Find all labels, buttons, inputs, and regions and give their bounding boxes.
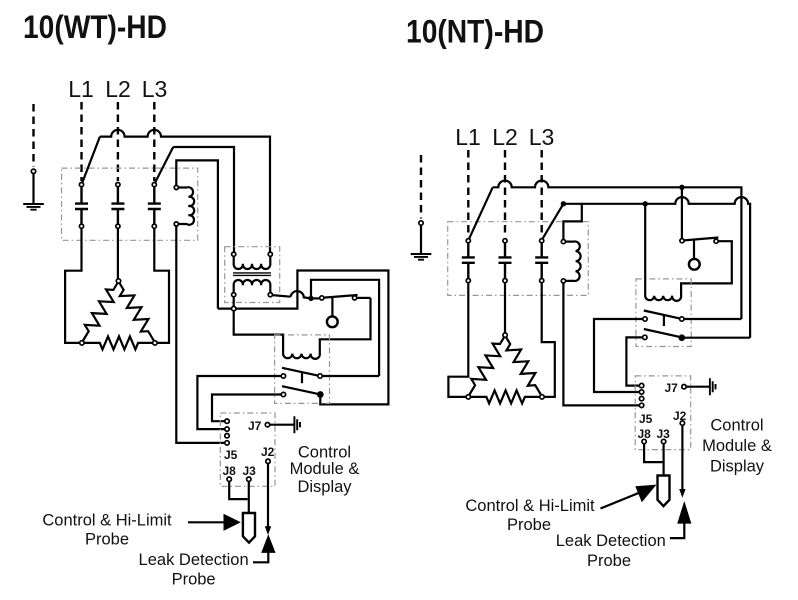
wire coil K2 bottom to J5 pin4 (right)	[563, 283, 639, 405]
wire transformer secondary right to node B with hop	[272, 291, 311, 298]
leak detection arrow up (right)	[670, 501, 692, 538]
svg-text:Display: Display	[710, 458, 765, 476]
svg-text:L2: L2	[105, 76, 131, 102]
svg-text:L3: L3	[142, 76, 168, 102]
ground G1	[23, 104, 44, 210]
connector J2 pin	[266, 459, 270, 463]
heater element E1 delta right node	[153, 341, 157, 345]
transformer T1 box	[225, 247, 280, 303]
contactor K1 box	[62, 168, 198, 240]
wire J2 leak sense with down arrow (right)	[680, 425, 685, 496]
wire L3 pole to delta right corner	[154, 228, 169, 343]
heater element E2 delta top node	[503, 333, 507, 337]
leak detection arrow (up)	[253, 534, 276, 562]
heater element E2 delta right node	[540, 395, 544, 399]
node B (junction dot)	[308, 296, 313, 301]
relay coil RY2	[645, 206, 681, 301]
svg-text:10(NT)-HD: 10(NT)-HD	[406, 14, 544, 50]
switch S1 with lamp DS1	[320, 295, 358, 316]
wire node A to relay coil and lamp loop	[234, 298, 371, 359]
heater element E2 right resistor	[506, 337, 541, 395]
svg-text:J7: J7	[248, 419, 262, 433]
wire L1 feed dashed (right)	[467, 150, 469, 237]
contact K1-C (L3 breaker pole)	[148, 183, 161, 229]
wire coil K2 hook to node C	[563, 204, 581, 240]
svg-text:Probe: Probe	[85, 531, 129, 549]
wire L2 feed (dashed)	[117, 102, 119, 181]
svg-text:J2: J2	[673, 409, 687, 423]
relay contact RY2-1	[643, 311, 684, 322]
switch blade L1 (right)	[469, 187, 493, 239]
heater element E1 bottom resistor	[84, 336, 153, 349]
lamp DS2	[689, 259, 700, 270]
heater element E2 bottom resistor	[470, 390, 540, 403]
connector J5 pin2 (right)	[639, 390, 643, 394]
wire J8 to probe	[229, 481, 247, 499]
wire J7 to chassis ground (right)	[686, 386, 709, 388]
wire J2 leak sense with down arrow	[266, 464, 271, 534]
wire J7 to chassis ground	[270, 424, 294, 426]
wire J3 to probe (right)	[662, 444, 664, 476]
svg-text:Leak Detection: Leak Detection	[556, 532, 666, 550]
connector J5 pin3	[225, 434, 229, 438]
contact K2-A (L1 breaker pole)	[462, 239, 475, 283]
connector J8 pin (right)	[642, 439, 646, 443]
svg-text:Leak Detection: Leak Detection	[139, 551, 249, 569]
wire RY2-1 left to J5 pin2 (right)	[594, 319, 643, 392]
connector J5 pin1 (right)	[639, 383, 643, 387]
contact K1-B (L2 breaker pole)	[111, 183, 124, 229]
wire RY2-2 left to J5 pin1 (right)	[626, 337, 642, 385]
switch blade L1	[82, 137, 100, 183]
wire RY1-2 left to J5 pin1	[212, 395, 281, 422]
svg-text:L2: L2	[492, 124, 518, 150]
connector J7 pin (right)	[682, 385, 686, 389]
relay contact RY1-2	[281, 386, 323, 397]
wire S2 right to relay coil RY2	[681, 241, 732, 293]
ground G2	[411, 155, 432, 260]
wire node B to pressure switch S1	[311, 297, 320, 299]
node E (junction dot on wire Q)	[643, 201, 648, 206]
wire L1 pole to delta left corner	[65, 228, 81, 343]
connector J2 pin (right)	[680, 421, 684, 425]
svg-text:Module &: Module &	[290, 460, 360, 478]
svg-text:L1: L1	[455, 124, 481, 150]
wire L3 pole to delta right corner (right)	[542, 283, 555, 397]
connector J5 box	[220, 413, 275, 486]
heater element E2 delta left node	[466, 395, 470, 399]
wire Q right: node C across with hops, down far right side	[563, 197, 750, 338]
wire L1 pole to delta left corner (right)	[448, 283, 468, 397]
heater element E2 left resistor	[469, 337, 504, 395]
svg-text:J2: J2	[261, 445, 275, 459]
connector J7 pin	[265, 423, 269, 427]
connector J5 pin3 (right)	[639, 396, 643, 400]
wire L2 pole to delta top corner	[117, 228, 119, 278]
connector J5 pin1	[225, 419, 229, 423]
relay RY1 box	[275, 335, 330, 404]
connector J5 pin4	[225, 441, 229, 445]
svg-text:Control: Control	[710, 417, 763, 435]
svg-text:J5: J5	[639, 412, 653, 426]
heater element E1 right resistor	[120, 283, 155, 342]
node A (transformer secondary left junction)	[232, 297, 236, 311]
connector J3 pin (right)	[661, 439, 665, 443]
svg-text:Display: Display	[297, 478, 352, 496]
coil K2 (contactor coil)	[561, 240, 580, 284]
switch S2 with lamp DS2	[680, 238, 719, 259]
wire R: coil K1 top to node A loop	[176, 160, 388, 404]
svg-text:L1: L1	[68, 76, 94, 102]
arrow to probe PR2	[601, 485, 657, 509]
svg-text:Probe: Probe	[587, 552, 631, 570]
svg-text:Control & Hi-Limit: Control & Hi-Limit	[465, 497, 595, 515]
chassis ground at J7	[294, 416, 300, 433]
svg-text:Control & Hi-Limit: Control & Hi-Limit	[42, 512, 172, 530]
svg-text:Control: Control	[298, 444, 351, 462]
svg-text:L3: L3	[529, 124, 555, 150]
probe PR1 (control and hi-limit probe)	[243, 513, 255, 543]
coil K1 (contactor coil)	[174, 185, 194, 226]
arrow to probe PR1	[188, 514, 241, 531]
connector J8 pin	[227, 477, 231, 481]
switch blade L3	[155, 147, 173, 183]
actuator link RY1	[301, 372, 303, 383]
relay RY2 box	[636, 279, 691, 347]
transformer T1 core	[233, 273, 271, 276]
wire Q: L3 blade to transformer primary left	[173, 147, 234, 252]
relay contact RY1-1	[281, 368, 322, 378]
wire L2 pole to delta top corner (right)	[504, 283, 506, 333]
wire P right: blade L1 across with hops, down right side	[493, 181, 742, 319]
wire RY1-2 right to outer loop	[319, 397, 321, 405]
svg-text:Probe: Probe	[507, 516, 551, 534]
connector J5 pin4 (right)	[639, 403, 643, 407]
svg-text:J5: J5	[224, 448, 238, 462]
contact K1-A (L1 breaker pole)	[75, 183, 88, 229]
heater element E1 delta top node	[116, 279, 120, 283]
wire L3 feed (dashed)	[153, 102, 155, 181]
connector J3 pin	[247, 477, 251, 481]
svg-text:Probe: Probe	[172, 571, 216, 589]
transformer T1 primary	[232, 252, 273, 269]
wire node B up to inner loop	[311, 280, 379, 376]
transformer T1 secondary	[232, 280, 273, 297]
svg-text:J8: J8	[223, 464, 237, 478]
wire RY2-2 right to wire Q vertical	[684, 337, 750, 339]
wire L3 feed dashed (right)	[541, 150, 543, 237]
lamp DS1	[327, 316, 338, 327]
svg-text:J7: J7	[665, 381, 679, 395]
switch blade L3 (right)	[542, 204, 563, 239]
connector J5 box (right)	[635, 376, 691, 450]
heater element E1 delta left node	[80, 341, 84, 345]
wire P: L1 blade to transformer primary right, hops over L2 L3	[100, 130, 270, 252]
node D (junction dot on wire P)	[679, 185, 684, 190]
contact K2-C (L3 breaker pole)	[535, 239, 548, 283]
heater element E1 left resistor	[83, 283, 118, 342]
node C (junction dot)	[561, 201, 566, 206]
wire RY2-1 right to wire P vertical	[684, 318, 741, 320]
contactor K2 box	[448, 222, 589, 296]
wire RY1-1 left to J5 pin2	[197, 376, 281, 429]
svg-text:10(WT)-HD: 10(WT)-HD	[23, 9, 167, 45]
svg-text:Module &: Module &	[702, 437, 772, 455]
wire coil K1 bottom to J5 pin4	[176, 226, 225, 443]
actuator link RY2	[663, 315, 665, 326]
connector J5 pin2	[225, 427, 229, 431]
relay contact RY2-2	[643, 329, 685, 340]
wire S1 right to relay coil loop	[357, 297, 371, 299]
wire L2 feed dashed (right)	[504, 150, 506, 237]
contact K2-B (L2 breaker pole)	[499, 239, 512, 283]
wire J3 to probe	[248, 481, 250, 513]
wire J8 to probe (right)	[644, 444, 662, 462]
wire node D down to switch S2	[681, 187, 683, 238]
wire RY1-1 right to inner loop	[322, 375, 379, 377]
chassis ground at J7 (right)	[710, 378, 716, 395]
wire L1 feed (dashed)	[80, 102, 82, 181]
svg-text:J3: J3	[243, 464, 257, 478]
probe PR2 (control and hi-limit probe right)	[658, 476, 670, 507]
